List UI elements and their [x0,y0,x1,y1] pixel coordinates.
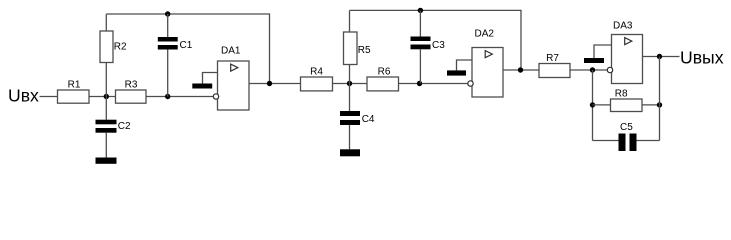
junction DA2 output [518,67,523,72]
wire R4 to R6 [333,83,368,85]
svg-text:R2: R2 [114,42,127,53]
junction C3 top [418,8,423,13]
svg-text:R1: R1 [68,80,81,91]
wire top feedback rail 1 [106,14,269,84]
wire C3 bottom lead [419,49,421,83]
wire DA1 non-inverting input [203,73,218,84]
junction output node [657,54,662,59]
wire C1 top lead [167,14,169,37]
svg-text:Uвых: Uвых [680,48,724,68]
svg-text:C2: C2 [118,121,131,132]
capacitor C2 [96,120,132,133]
resistor R2 [100,31,127,63]
wire R8 left lead [593,104,611,106]
wire R6 to DA2 inverting input [399,83,469,85]
DA3 inverting input circle [607,67,612,72]
svg-text:R6: R6 [378,67,391,78]
junction C1 top [165,11,170,16]
ground bar DA1 non-inverting input [192,84,212,89]
wire R3 to DA1 inverting input [146,96,214,98]
wire R2 to top rail [105,14,107,31]
wire C4 to ground [349,125,351,149]
resistor R8 [611,89,643,112]
wire C3 top lead [419,10,421,36]
wire top feedback rail 2 [350,10,522,70]
svg-text:C1: C1 [180,40,193,51]
wire feedback right vertical [659,57,661,141]
svg-text:DA2: DA2 [475,29,495,40]
capacitor C3 [411,37,446,52]
wire R5 to top rail [349,10,351,32]
resistor R3 [116,80,147,104]
resistor R7 [539,53,570,78]
capacitor C1 [158,37,193,51]
wire C5 right lead [637,140,660,142]
wire DA3 non-inverting input [594,45,612,58]
svg-text:R3: R3 [125,80,138,91]
wire DA2 non-inverting input [457,60,473,70]
svg-text:R5: R5 [358,45,371,56]
wire DA2 output to R7 [503,69,539,71]
svg-text:R7: R7 [546,53,559,64]
op-amp DA1 [218,46,250,111]
wire R1 to R3 [89,96,116,98]
svg-text:C4: C4 [362,114,375,125]
junction R8 right [657,102,662,107]
wire C1 bottom lead [167,50,169,97]
ground bar below C4 [340,149,360,156]
ground bar DA2 non-inverting input [447,70,466,75]
capacitor C4 [340,111,375,125]
junction R8 left [590,102,595,107]
svg-text:R8: R8 [615,89,628,100]
op-amp DA2 [472,29,503,98]
resistor R4 [301,67,333,91]
svg-text:Uвх: Uвх [8,86,39,106]
junction DA3 inverting node [590,67,595,72]
wire C2 to ground [105,133,107,158]
DA1 inverting input circle [213,94,218,99]
wire feedback left vertical [592,70,594,141]
wire R7 to DA3 inverting input [570,69,608,71]
svg-text:DA3: DA3 [613,21,633,32]
op-amp DA3 [612,21,643,84]
svg-text:C3: C3 [432,40,445,51]
wire C5 left lead [593,140,619,142]
node A junction [104,94,109,99]
resistor R6 [367,67,399,91]
node C junction [347,81,352,86]
svg-text:C5: C5 [620,122,633,133]
wire node C to R5 [349,65,351,84]
ground bar DA3 non-inverting input [584,58,604,63]
wire node A to R2 [105,63,107,97]
node D junction [417,81,422,86]
wire input to R1 [40,96,58,98]
node B junction [165,94,170,99]
capacitor C5 [619,122,637,151]
wire node C to C4 [349,84,351,112]
wire DA1 output to R4 [249,83,301,85]
junction DA1 output [267,81,272,86]
wire R8 right lead [642,104,660,106]
resistor R1 [58,80,90,104]
DA2 inverting input circle [468,81,473,86]
ground bar below C2 [96,158,117,164]
wire node A to C2 [105,97,107,120]
resistor R5 [344,32,372,65]
wire DA3 output [643,56,680,58]
svg-text:R4: R4 [310,67,323,78]
svg-text:DA1: DA1 [221,46,241,57]
